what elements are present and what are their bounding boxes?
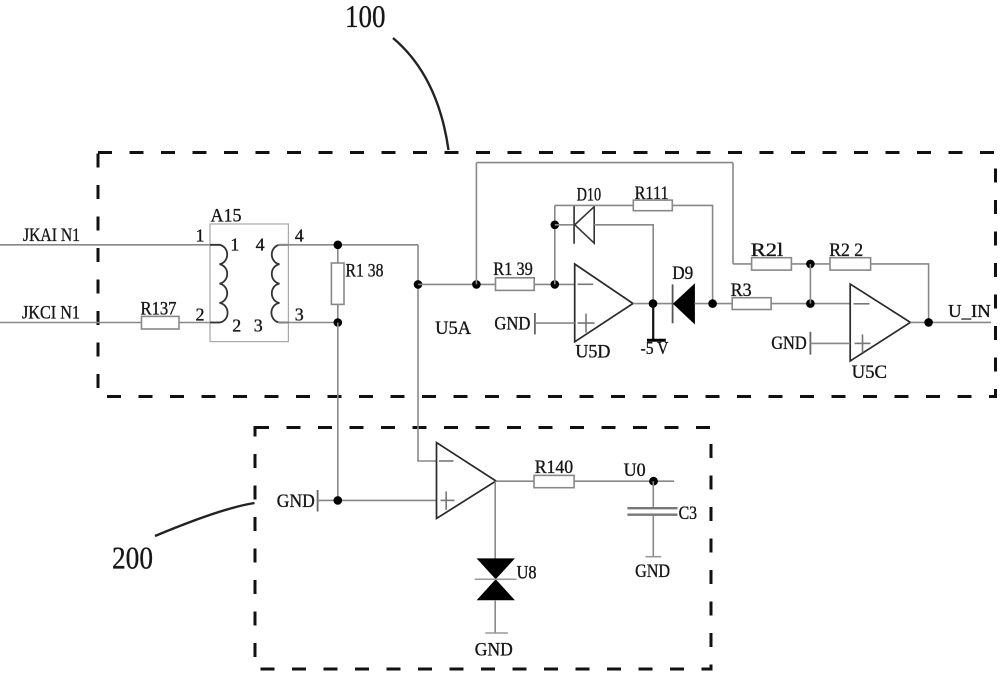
svg-text:R111: R111 [635,183,669,204]
junction U5C minus node [806,299,815,308]
svg-text:R1 39: R1 39 [493,259,533,280]
wire U8 to ground [494,600,496,633]
-5V supply [641,304,669,359]
svg-text:JKAI N1: JKAI N1 [23,225,80,246]
svg-text:3: 3 [295,305,304,325]
svg-text:U5D: U5D [575,342,610,363]
wire pin 4 to node [278,244,418,246]
wire node down to minus wire [809,264,811,304]
svg-text:GND: GND [771,333,807,354]
diode D10 [574,185,601,244]
dashed box 200 [255,428,711,670]
ground for U5C [771,332,850,355]
wire R111 right down to D9 output node [672,205,712,303]
wire feedback vertical right [732,163,734,264]
svg-text:2: 2 [196,305,205,325]
junction D9 output node [708,299,717,308]
svg-text:R2l: R2l [751,240,784,261]
op-amp in box 200 [437,443,497,519]
junction U5D minus node [551,280,560,289]
diode D9 [672,263,694,324]
svg-text:3: 3 [254,315,263,335]
svg-text:R137: R137 [141,299,177,320]
svg-text:-5 V: -5 V [641,338,669,358]
svg-text:U5A: U5A [435,318,471,339]
primary winding [210,245,228,323]
svg-text:200: 200 [112,539,153,575]
wire node to R139 [418,283,496,285]
wire D10 to corner [594,225,653,304]
wire pin 3 to node [278,322,338,324]
wire U5C output U_IN [910,321,991,323]
wire R138 node down to GND node in box 200 [337,323,339,501]
wire R138 top [337,245,339,263]
resistor R22 [829,240,870,270]
wire C3 to ground [652,516,654,557]
ground for U5D [494,313,574,334]
wire D9 to R3 [694,303,732,305]
wire R139 to U5D minus [534,283,575,285]
resistor R2l [751,240,792,270]
resistor R111 [633,183,672,211]
dashed box 100 [98,153,996,397]
wire R138 bottom [337,304,339,322]
junction D10 anode node [551,221,560,230]
wire node to D10 [555,224,574,226]
svg-text:R1 38: R1 38 [346,261,384,282]
svg-text:1: 1 [230,234,239,254]
svg-text:A15: A15 [211,206,242,227]
wire feedback top horizontal [476,162,733,164]
wire down to box 200 amp minus [418,245,437,461]
svg-text:JKCI N1: JKCI N1 [22,303,80,324]
secondary winding [271,245,288,323]
svg-text:2: 2 [232,315,241,335]
junction -5V node [649,299,658,308]
svg-text:U0: U0 [624,460,646,481]
junction R2l R22 node [806,260,815,269]
wire JKAIN1 input [0,244,221,246]
svg-text:U5C: U5C [852,362,888,383]
resistor R138 [331,261,383,305]
wire R111 left [555,204,634,206]
svg-text:C3: C3 [679,503,698,524]
leader line for label 100 [393,38,449,150]
svg-text:4: 4 [295,225,304,245]
svg-text:GND: GND [635,561,670,582]
ground below U8 [475,633,513,660]
svg-text:GND: GND [494,313,530,334]
junction node at x418 [414,280,423,289]
svg-text:R140: R140 [535,457,574,478]
wire amp output [496,480,534,482]
svg-text:R2 2: R2 2 [829,240,863,261]
capacitor C3 [627,503,697,524]
ground below C3 [635,557,670,583]
junction GND node [334,496,343,505]
wire R3 to U5C minus [771,303,850,305]
svg-text:D9: D9 [672,263,693,284]
transformer A15 [196,206,304,342]
svg-text:GND: GND [475,639,513,660]
svg-text:U_IN: U_IN [948,301,991,321]
ground for amp in box 200 [277,490,437,512]
resistor R3 [731,280,772,310]
wire R140 to U0 node [574,480,674,482]
leader line for label 200 [155,503,255,536]
wire R137 to transformer pin 2 [179,322,221,324]
svg-text:U8: U8 [517,562,537,583]
resistor R137 [141,299,180,330]
wire node up to D10 [554,205,556,284]
wire amp output down to U8 [494,481,496,558]
svg-text:D10: D10 [577,185,602,206]
svg-text:100: 100 [345,0,386,34]
svg-text:1: 1 [196,225,205,245]
svg-text:GND: GND [277,491,315,512]
junction bottom of R138 [334,318,343,327]
junction feedback node [472,280,481,289]
resistor R140 [534,457,574,487]
svg-text:R3: R3 [731,280,752,301]
wire feedback to R2l [733,263,752,265]
junction U0 node [649,477,658,486]
junction U5C output node [924,318,933,327]
svg-text:4: 4 [256,234,265,254]
resistor R139 [493,259,534,290]
junction top of R138 [334,241,343,250]
op-amp U5D [575,264,633,363]
wire U0 down to C3 [652,481,654,507]
op-amp U5C [850,284,910,383]
wire feedback vertical left [475,163,477,285]
wire JKCIN1 input [0,322,142,324]
wire U5D output [633,303,673,305]
wire R2l to R22 [791,263,830,265]
TVS diode U8 [475,558,537,600]
wire R22 to output [871,264,929,323]
